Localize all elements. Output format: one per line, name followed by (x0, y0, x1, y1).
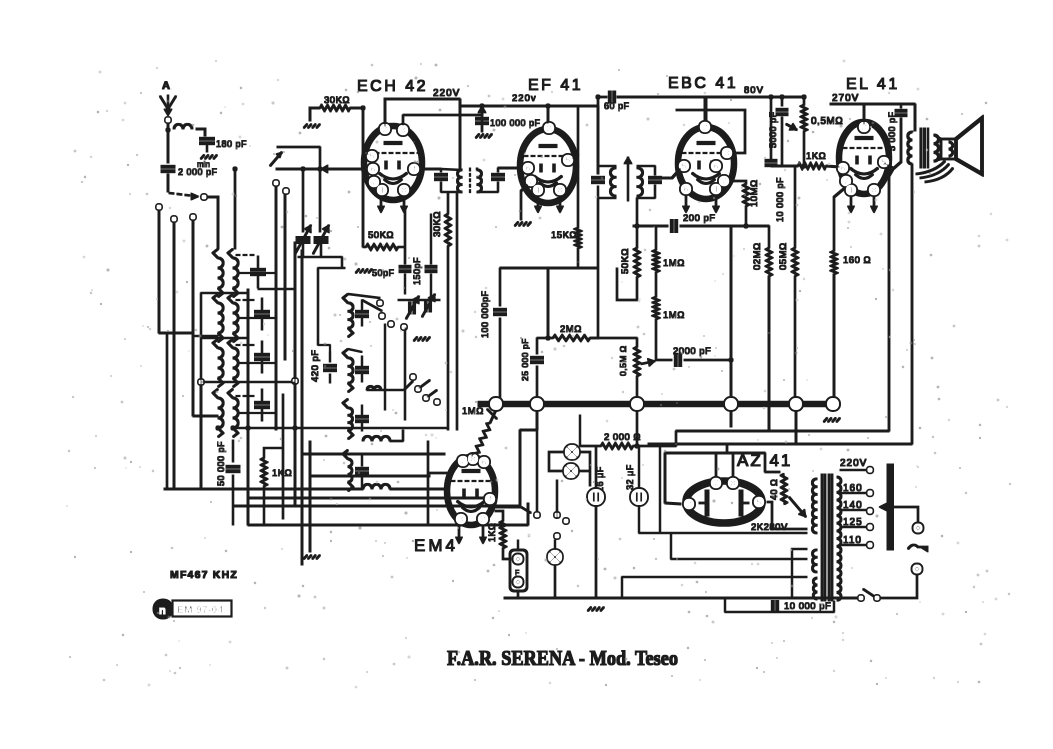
svg-text:100 000pF: 100 000pF (480, 290, 490, 338)
svg-text:50KΩ: 50KΩ (620, 248, 631, 274)
svg-text:F: F (515, 570, 520, 577)
svg-text:7: 7 (529, 177, 534, 186)
svg-text:n: n (159, 605, 166, 617)
svg-text:5: 5 (566, 156, 571, 165)
svg-text:MF467 KHZ: MF467 KHZ (170, 569, 238, 581)
svg-text:10MΩ: 10MΩ (749, 179, 760, 207)
svg-text:125: 125 (843, 517, 863, 528)
svg-text:6: 6 (371, 165, 376, 174)
svg-text:2 000 Ω: 2 000 Ω (604, 432, 641, 443)
svg-text:1: 1 (380, 186, 385, 195)
svg-text:1: 1 (849, 186, 854, 195)
svg-text:50pF: 50pF (372, 268, 395, 278)
svg-text:3: 3 (401, 126, 406, 135)
svg-text:150pF: 150pF (412, 257, 422, 285)
svg-text:8: 8 (731, 479, 736, 488)
svg-text:420 pF: 420 pF (310, 349, 321, 382)
svg-text:110: 110 (843, 535, 862, 546)
svg-text:0,5MΩ: 0,5MΩ (811, 116, 843, 127)
svg-text:5: 5 (682, 162, 687, 171)
svg-text:32 μF: 32 μF (625, 464, 635, 490)
svg-text:min: min (197, 160, 210, 169)
svg-text:220V: 220V (433, 88, 460, 99)
svg-text:6: 6 (714, 162, 719, 171)
svg-text:15KΩ: 15KΩ (551, 230, 577, 241)
svg-text:A: A (162, 80, 170, 92)
svg-text:5: 5 (370, 152, 375, 161)
svg-text:160: 160 (843, 483, 863, 494)
svg-text:2: 2 (687, 500, 692, 509)
svg-text:100 000 pF: 100 000 pF (490, 118, 541, 128)
svg-text:2MΩ: 2MΩ (560, 324, 582, 335)
svg-text:1MΩ: 1MΩ (462, 406, 484, 417)
svg-text:8: 8 (558, 186, 563, 195)
svg-text:ECH 42: ECH 42 (357, 78, 428, 95)
svg-text:6: 6 (841, 164, 846, 173)
svg-text:30KΩ: 30KΩ (324, 95, 350, 106)
svg-text:10 000 pF: 10 000 pF (784, 601, 831, 612)
svg-text:7: 7 (722, 177, 727, 186)
svg-text:6: 6 (526, 164, 531, 173)
svg-text:180 pF: 180 pF (216, 139, 247, 149)
svg-text:4: 4 (412, 165, 417, 174)
svg-text:EM4: EM4 (414, 536, 458, 555)
svg-text:EBC 41: EBC 41 (668, 75, 738, 92)
svg-text:50 000 pF: 50 000 pF (216, 441, 226, 486)
svg-text:2: 2 (481, 515, 486, 524)
svg-text:5: 5 (882, 158, 887, 167)
svg-text:5: 5 (757, 498, 762, 507)
svg-text:EM 97-04: EM 97-04 (177, 605, 224, 616)
svg-text:160 Ω: 160 Ω (843, 255, 871, 266)
svg-text:3: 3 (459, 515, 464, 524)
svg-text:2: 2 (547, 124, 552, 133)
svg-text:270V: 270V (832, 93, 859, 104)
svg-text:6: 6 (684, 185, 689, 194)
svg-text:2: 2 (703, 123, 708, 132)
svg-text:10 000 pF: 10 000 pF (775, 177, 785, 222)
svg-text:1: 1 (714, 185, 719, 194)
svg-text:1KΩ: 1KΩ (487, 523, 497, 542)
svg-text:40 Ω: 40 Ω (769, 479, 779, 500)
svg-text:7: 7 (714, 479, 719, 488)
svg-text:8: 8 (872, 186, 877, 195)
svg-text:30KΩ: 30KΩ (432, 211, 443, 237)
svg-text:140: 140 (843, 500, 863, 511)
svg-text:1MΩ: 1MΩ (663, 310, 685, 321)
svg-text:6: 6 (482, 458, 487, 467)
svg-text:2K280V: 2K280V (751, 522, 788, 533)
svg-text:EL 41: EL 41 (846, 76, 900, 93)
svg-text:EF 41: EF 41 (528, 77, 583, 94)
svg-text:60 pF: 60 pF (604, 101, 630, 111)
svg-text:1MΩ: 1MΩ (663, 258, 685, 269)
svg-text:220v: 220v (512, 93, 537, 104)
svg-text:50KΩ: 50KΩ (368, 230, 394, 241)
svg-text:1KΩ: 1KΩ (806, 151, 826, 162)
svg-text:200 pF: 200 pF (683, 213, 716, 224)
svg-text:4: 4 (488, 495, 493, 504)
svg-text:0,5M Ω: 0,5M Ω (618, 345, 628, 376)
svg-text:5 000 pF: 5 000 pF (887, 111, 897, 151)
svg-text:25 000 pF: 25 000 pF (520, 338, 530, 381)
svg-text:80V: 80V (744, 85, 764, 96)
svg-text:1: 1 (536, 186, 541, 195)
svg-text:8: 8 (402, 186, 407, 195)
svg-text:7: 7 (372, 178, 377, 187)
svg-text:2: 2 (862, 123, 867, 132)
svg-text:F.A.R. SERENA - Mod. Teseo: F.A.R. SERENA - Mod. Teseo (447, 646, 678, 670)
svg-text:7: 7 (461, 457, 466, 466)
svg-text:3: 3 (725, 149, 730, 158)
svg-text:02MΩ: 02MΩ (752, 242, 763, 270)
svg-text:220V: 220V (840, 458, 867, 469)
svg-text:2: 2 (383, 125, 388, 134)
svg-text:1KΩ: 1KΩ (272, 468, 292, 479)
svg-text:05MΩ: 05MΩ (778, 242, 789, 270)
svg-text:5000 pF: 5000 pF (768, 111, 778, 148)
